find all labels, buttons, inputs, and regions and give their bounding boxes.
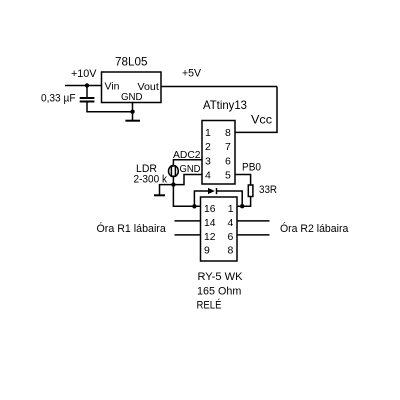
- relay K1 body: [201, 197, 238, 261]
- diode D1: [208, 188, 217, 194]
- wire pin 5 PB0 to resistor R2: [235, 175, 251, 186]
- svg-text:6: 6: [228, 231, 234, 243]
- svg-text:PB0: PB0: [242, 162, 261, 174]
- svg-text:4: 4: [205, 169, 211, 181]
- wire diode anode branch: [194, 191, 208, 206]
- svg-text:RELÉ: RELÉ: [197, 299, 222, 312]
- svg-text:2: 2: [205, 141, 211, 153]
- node A LDR bottom junction: [171, 182, 175, 186]
- wire node A to ground: [160, 185, 174, 195]
- svg-text:14: 14: [204, 217, 216, 229]
- wire relay pin 4: [237, 220, 270, 222]
- IC U2 ATtiny13 body: [202, 121, 235, 185]
- wire resistor R2 to relay pin 1: [237, 197, 251, 207]
- wire diode cathode branch: [217, 191, 243, 206]
- svg-text:Óra R2 lábaira: Óra R2 lábaira: [280, 222, 349, 235]
- wire regulator GND stem: [132, 103, 134, 121]
- svg-text:RY-5 WK: RY-5 WK: [198, 271, 244, 283]
- svg-text:Vcc: Vcc: [251, 113, 272, 127]
- node junction capacitor top: [85, 83, 89, 87]
- svg-text:4: 4: [228, 217, 234, 229]
- svg-text:165 Ohm: 165 Ohm: [197, 286, 241, 298]
- wire node A to relay pin 16: [173, 185, 200, 207]
- wire relay pin 12: [175, 234, 201, 236]
- resistor R2 33R body: [248, 185, 253, 197]
- wire +5V rail: [161, 86, 277, 88]
- svg-text:GND: GND: [180, 163, 201, 175]
- svg-text:Óra R1 lábaira: Óra R1 lábaira: [97, 222, 167, 235]
- svg-text:7: 7: [225, 141, 231, 153]
- svg-text:2-300 k: 2-300 k: [134, 174, 168, 186]
- ground symbol below regulator: [125, 120, 140, 122]
- svg-text:Vin: Vin: [105, 81, 120, 93]
- svg-text:8: 8: [228, 244, 234, 256]
- svg-text:+10V: +10V: [71, 68, 97, 80]
- svg-text:3: 3: [205, 155, 211, 167]
- svg-text:8: 8: [225, 127, 231, 139]
- wire pin 4 GND to node A: [173, 175, 202, 185]
- svg-text:ATtiny13: ATtiny13: [203, 98, 247, 112]
- svg-text:16: 16: [204, 203, 216, 215]
- svg-text:9: 9: [204, 244, 210, 256]
- ground symbol near LDR: [154, 194, 165, 196]
- svg-text:5: 5: [225, 169, 231, 181]
- svg-text:6: 6: [225, 155, 231, 167]
- node diode anode junction: [192, 204, 196, 208]
- capacitor C1 plates: [80, 98, 95, 102]
- node junction regulator ground: [130, 110, 134, 114]
- node diode cathode junction: [240, 204, 244, 208]
- wire relay pin 6: [237, 234, 270, 236]
- svg-text:78L05: 78L05: [115, 57, 148, 69]
- svg-text:GND: GND: [121, 91, 143, 103]
- wire +10V input: [65, 85, 102, 87]
- svg-text:+5V: +5V: [182, 68, 202, 80]
- LDR R1 symbol: [169, 166, 179, 177]
- wire LDR bottom leg: [172, 176, 174, 184]
- svg-text:12: 12: [204, 231, 216, 243]
- wire capacitor C1 bottom leg: [87, 102, 133, 112]
- wire capacitor C1 top leg: [86, 86, 88, 98]
- svg-text:0,33 µF: 0,33 µF: [41, 93, 76, 105]
- svg-text:33R: 33R: [259, 184, 277, 196]
- wire pin 3 ADC2 to LDR: [173, 160, 202, 166]
- wire relay pin 14: [175, 220, 201, 222]
- voltage regulator U1 78L05 body: [102, 72, 162, 103]
- svg-text:1: 1: [228, 203, 234, 215]
- svg-text:1: 1: [205, 127, 211, 139]
- svg-text:ADC2: ADC2: [173, 149, 201, 161]
- wire Vcc drop to pin 8: [235, 87, 277, 133]
